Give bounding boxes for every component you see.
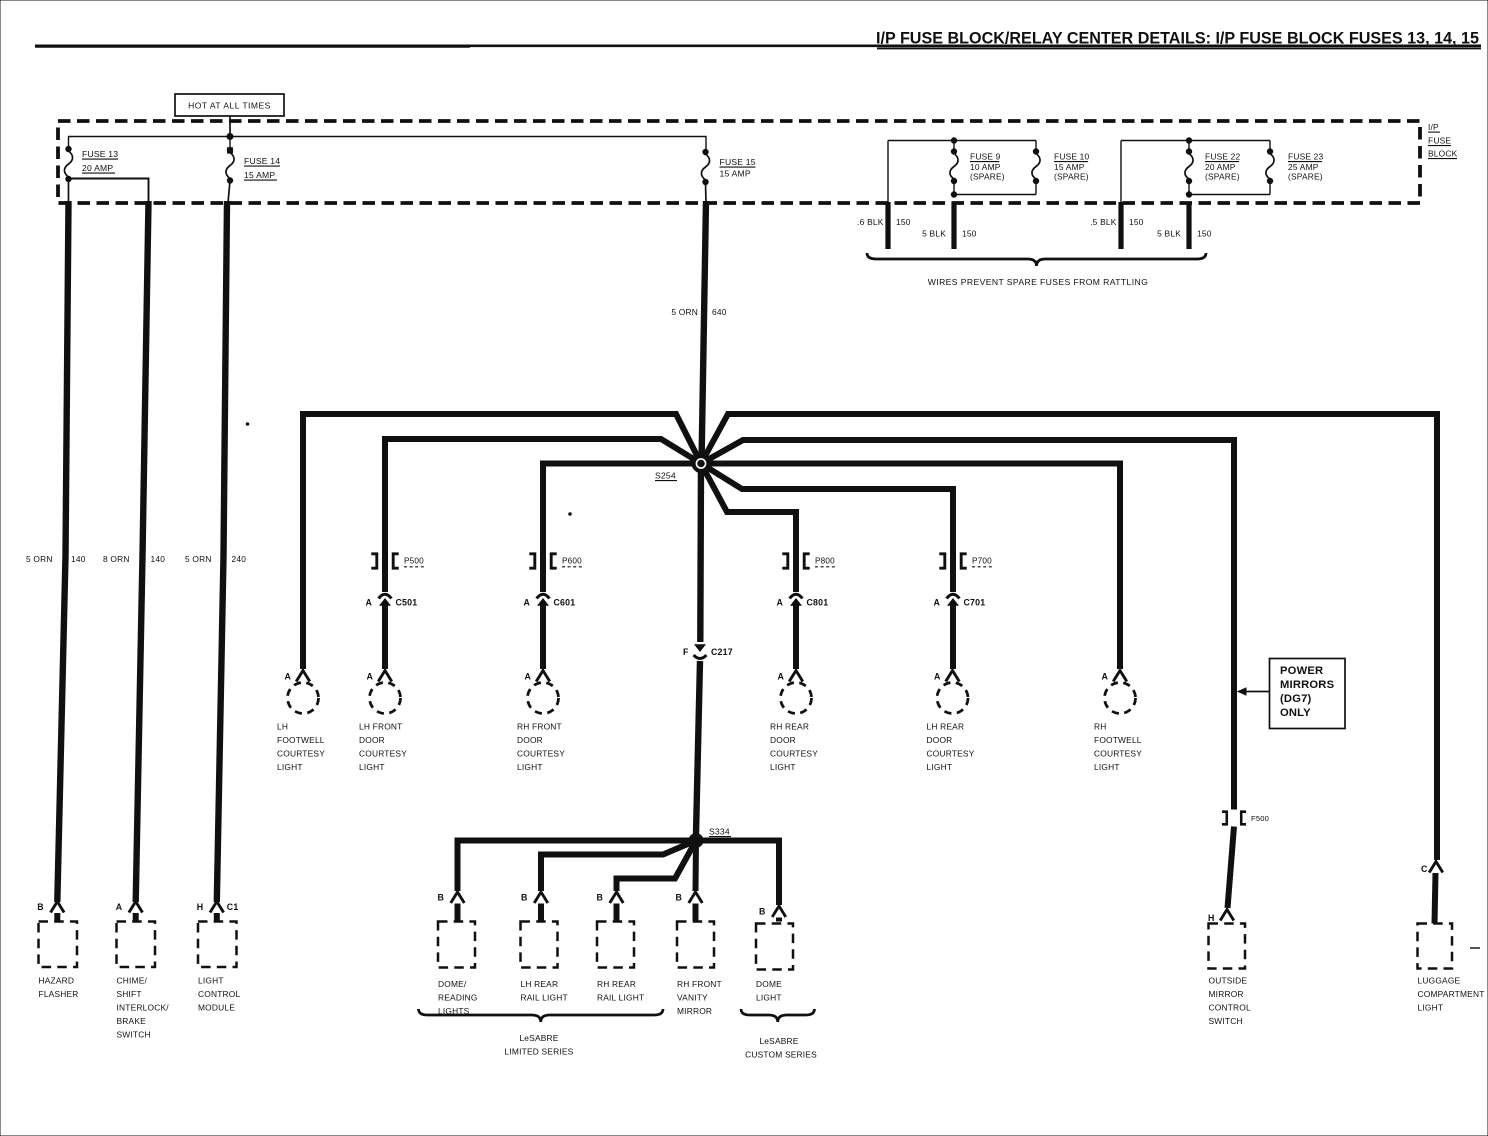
svg-text:VANITY: VANITY [677, 993, 708, 1003]
label .6 BLK 150 [857, 217, 911, 227]
svg-text:C501: C501 [396, 597, 418, 607]
svg-text:(DG7): (DG7) [1280, 693, 1312, 705]
node: bus junction at fuse 14 [227, 134, 233, 140]
label LeSABRE CUSTOM SERIES [745, 1036, 817, 1060]
svg-text:HAZARD: HAZARD [39, 976, 75, 986]
terminal A at RH FOOTWELL COURTESY LIGHT [1102, 671, 1127, 682]
svg-text:FUSE 23: FUSE 23 [1288, 152, 1324, 162]
fuse F13 [64, 146, 72, 203]
svg-text:LIGHT: LIGHT [770, 762, 796, 772]
svg-text:BLOCK: BLOCK [1428, 149, 1458, 159]
svg-text:640: 640 [712, 307, 727, 317]
svg-text:10 AMP: 10 AMP [970, 162, 1001, 172]
svg-text:20 AMP: 20 AMP [1205, 162, 1236, 172]
label .5 BLK 150 [1090, 217, 1144, 227]
box: DOME LIGHT [756, 924, 793, 970]
svg-text:RH REAR: RH REAR [597, 979, 636, 989]
svg-text:A: A [934, 672, 941, 682]
label 5 BLK 150 [922, 229, 977, 239]
svg-text:CUSTOM SERIES: CUSTOM SERIES [745, 1050, 817, 1060]
HOT AT ALL TIMES box [175, 94, 284, 116]
terminal B at DOME LIGHT [759, 906, 786, 917]
svg-text:5 BLK: 5 BLK [922, 229, 946, 239]
brace: LeSABRE LIMITED SERIES group [419, 1009, 664, 1022]
svg-text:HOT AT ALL TIMES: HOT AT ALL TIMES [188, 101, 271, 111]
svg-text:LIGHT: LIGHT [517, 762, 543, 772]
svg-text:MIRROR: MIRROR [1209, 989, 1244, 999]
label LeSABRE LIMITED SERIES [505, 1033, 574, 1057]
svg-text:COURTESY: COURTESY [359, 749, 407, 759]
svg-text:DOME: DOME [756, 979, 782, 989]
terminal H at outside mirror control switch [1208, 910, 1234, 924]
svg-text:A: A [1102, 672, 1109, 682]
lamp: RH FOOTWELL COURTESY LIGHT [1105, 683, 1136, 714]
label FUSE 9 [970, 152, 1005, 182]
terminal A at RH REAR DOOR COURTESY LIGHT [778, 671, 803, 682]
svg-text:(SPARE): (SPARE) [1288, 172, 1323, 182]
fuse F15 [701, 149, 709, 203]
brace: wires prevent spare fuses from rattling [867, 253, 1206, 266]
svg-text:LIGHT: LIGHT [198, 976, 224, 986]
svg-text:FUSE 10: FUSE 10 [1054, 152, 1090, 162]
svg-text:B: B [597, 893, 604, 903]
svg-text:(SPARE): (SPARE) [1205, 172, 1240, 182]
svg-text:FOOTWELL: FOOTWELL [277, 735, 325, 745]
wire into CHIME/SHIFT INTERLOCK/BRAKE SWITCH [133, 913, 139, 922]
terminal A at LH REAR DOOR COURTESY LIGHT [934, 671, 959, 682]
title rule [35, 46, 1481, 49]
wire below P700 [950, 550, 956, 592]
svg-text:B: B [759, 907, 766, 917]
svg-text:A: A [116, 902, 123, 912]
svg-text:DOME/: DOME/ [438, 979, 467, 989]
splice S334 [689, 834, 703, 848]
svg-text:LeSABRE: LeSABRE [759, 1036, 798, 1046]
svg-text:A: A [777, 597, 784, 607]
label S334 [709, 827, 731, 837]
svg-text:LH REAR: LH REAR [927, 722, 965, 732]
wire: S254 to P800 branch [701, 464, 796, 551]
svg-text:LIGHT: LIGHT [1094, 762, 1120, 772]
terminal B at RH FRONT VANITY MIRROR [676, 892, 703, 903]
svg-text:15 AMP: 15 AMP [244, 170, 275, 180]
wire into LIGHT CONTROL MODULE [214, 913, 220, 922]
svg-text:RH FRONT: RH FRONT [677, 979, 722, 989]
box: RH REAR RAIL LIGHT [597, 922, 634, 968]
svg-text:8 ORN: 8 ORN [103, 554, 130, 564]
callout box POWER MIRRORS (DG7) ONLY [1270, 659, 1346, 729]
title: I/P FUSE BLOCK/RELAY CENTER DETAILS [876, 29, 1479, 48]
label RH FRONT DOOR COURTESY LIGHT [517, 722, 565, 773]
svg-text:FLASHER: FLASHER [39, 989, 79, 999]
I/P FUSE BLOCK label [1428, 122, 1458, 159]
wire below C501 [382, 603, 388, 669]
wire below C801 [793, 603, 799, 669]
svg-text:CONTROL: CONTROL [198, 989, 240, 999]
connector C701 pin A [934, 594, 986, 607]
wire into RH REAR RAIL LIGHT [614, 904, 620, 922]
svg-text:INTERLOCK/: INTERLOCK/ [117, 1003, 170, 1013]
label FUSE 14 / 15 AMP [244, 156, 280, 180]
wire: branch from fuse 13 to second feed [69, 179, 149, 204]
svg-text:F500: F500 [1251, 814, 1269, 823]
wire: S254 to P500 branch [385, 439, 701, 551]
label FUSE 22 [1205, 152, 1241, 182]
svg-text:MODULE: MODULE [198, 1003, 235, 1013]
fuse F14 [226, 148, 234, 203]
svg-text:BRAKE: BRAKE [117, 1016, 147, 1026]
wire below P800 [793, 550, 799, 592]
svg-text:.6 BLK: .6 BLK [857, 217, 884, 227]
svg-text:P700: P700 [972, 557, 992, 566]
svg-text:READING: READING [438, 993, 478, 1003]
svg-text:S334: S334 [709, 827, 730, 837]
svg-text:F: F [683, 647, 689, 657]
connector C601 pin A [524, 594, 576, 607]
svg-text:P500: P500 [404, 557, 424, 566]
connector C501 pin A [366, 594, 418, 607]
box: RH FRONT VANITY MIRROR [677, 922, 714, 968]
wire: .5 BLK stub A left [885, 202, 890, 249]
terminal B at DOME/READING LIGHTS [438, 892, 465, 903]
svg-text:B: B [37, 902, 44, 912]
lamp: LH REAR DOOR COURTESY LIGHT [937, 683, 968, 714]
svg-text:COURTESY: COURTESY [277, 749, 325, 759]
lamp: LH FOOTWELL COURTESY LIGHT [288, 683, 319, 714]
wire: spare fuse frame B [1121, 138, 1270, 202]
svg-text:COMPARTMENT: COMPARTMENT [1418, 989, 1485, 999]
svg-text:C217: C217 [711, 647, 733, 657]
svg-text:RH REAR: RH REAR [770, 722, 809, 732]
svg-text:FUSE 13: FUSE 13 [82, 149, 118, 159]
terminal B at LH REAR RAIL LIGHT [521, 892, 548, 903]
svg-text:B: B [521, 893, 528, 903]
terminal C at luggage compartment light [1421, 862, 1443, 875]
svg-text:DOOR: DOOR [927, 735, 953, 745]
svg-text:240: 240 [232, 554, 247, 564]
wire into DOME/READING LIGHTS [455, 904, 461, 922]
wire: S334 to dome/reading lights [458, 841, 697, 892]
svg-text:CONTROL: CONTROL [1209, 1003, 1251, 1013]
label CHIME/SHIFT INTERLOCK/BRAKE SWITCH [117, 976, 170, 1040]
svg-text:MIRRORS: MIRRORS [1280, 679, 1335, 691]
svg-text:LIGHT: LIGHT [359, 762, 385, 772]
svg-text:(SPARE): (SPARE) [1054, 172, 1089, 182]
svg-text:RH: RH [1094, 722, 1107, 732]
svg-text:5 ORN: 5 ORN [185, 554, 212, 564]
wire: S254 to P700 branch [701, 464, 953, 551]
wire below C701 [950, 603, 956, 669]
box: HAZARD FLASHER [39, 922, 78, 968]
svg-text:150: 150 [962, 229, 977, 239]
svg-text:FOOTWELL: FOOTWELL [1094, 735, 1142, 745]
fuse FUSE 23 (spare) [1266, 149, 1274, 184]
wire into HAZARD FLASHER [54, 913, 60, 922]
wire: S254 to P600 branch [543, 464, 701, 551]
svg-text:(SPARE): (SPARE) [970, 172, 1005, 182]
svg-text:RAIL LIGHT: RAIL LIGHT [521, 993, 568, 1003]
wire: S254 to outside mirror control switch [701, 440, 1234, 810]
label RH REAR DOOR COURTESY LIGHT [770, 722, 818, 773]
svg-text:SWITCH: SWITCH [117, 1030, 151, 1040]
svg-text:DOOR: DOOR [517, 735, 543, 745]
svg-text:LH REAR: LH REAR [521, 979, 559, 989]
lamp: LH FRONT DOOR COURTESY LIGHT [370, 683, 401, 714]
svg-text:B: B [676, 893, 683, 903]
wire: 5 ORN 240 to light control module [217, 201, 227, 902]
label DOME LIGHT [756, 979, 782, 1003]
svg-text:MIRROR: MIRROR [677, 1006, 712, 1016]
label RH REAR RAIL LIGHT [597, 979, 644, 1003]
label RH FOOTWELL COURTESY LIGHT [1094, 722, 1142, 773]
svg-text:FUSE 9: FUSE 9 [970, 152, 1001, 162]
label S254 [655, 471, 677, 481]
connector C217 pin F [683, 644, 733, 658]
svg-text:5 BLK: 5 BLK [1157, 229, 1181, 239]
svg-text:OUTSIDE: OUTSIDE [1209, 976, 1248, 986]
svg-text:A: A [778, 672, 785, 682]
label DOME/READING LIGHTS [438, 979, 478, 1016]
svg-text:LH: LH [277, 722, 288, 732]
label LH REAR RAIL LIGHT [521, 979, 568, 1003]
speck artifacts [246, 423, 1480, 948]
label 8 ORN 140 [103, 554, 165, 564]
label RH FRONT VANITY MIRROR [677, 979, 722, 1016]
svg-text:COURTESY: COURTESY [927, 749, 975, 759]
svg-text:P600: P600 [562, 557, 582, 566]
label FUSE 23 [1288, 152, 1324, 182]
label WIRES PREVENT SPARE FUSES FROM RATTLING [928, 277, 1148, 287]
svg-text:H: H [197, 902, 204, 912]
svg-text:SWITCH: SWITCH [1209, 1016, 1243, 1026]
svg-text:A: A [524, 597, 531, 607]
svg-text:COURTESY: COURTESY [517, 749, 565, 759]
wire: 5 BLK stub A right [951, 202, 956, 249]
svg-text:FUSE 22: FUSE 22 [1205, 152, 1241, 162]
svg-text:A: A [934, 597, 941, 607]
wire below P600 [540, 550, 546, 592]
label FUSE 10 [1054, 152, 1090, 182]
box: OUTSIDE MIRROR CONTROL SWITCH [1209, 924, 1246, 969]
wire below C601 [540, 603, 546, 669]
svg-text:LH FRONT: LH FRONT [359, 722, 402, 732]
svg-text:LIGHT: LIGHT [927, 762, 953, 772]
svg-text:CHIME/: CHIME/ [117, 976, 148, 986]
svg-text:150: 150 [1129, 217, 1144, 227]
wire into DOME LIGHT [776, 918, 782, 922]
terminal A at LH FOOTWELL COURTESY LIGHT [285, 671, 310, 682]
svg-text:140: 140 [71, 554, 86, 564]
wire into LH REAR RAIL LIGHT [538, 904, 544, 922]
svg-text:B: B [438, 893, 445, 903]
label LH FOOTWELL COURTESY LIGHT [277, 722, 325, 773]
box: LIGHT CONTROL MODULE [198, 922, 237, 968]
wire: fuse feed bus [69, 137, 707, 151]
label LUGGAGE COMPARTMENT LIGHT [1418, 976, 1485, 1013]
label 5 ORN 140 [26, 554, 86, 564]
svg-text:A: A [367, 672, 374, 682]
svg-text:5 ORN: 5 ORN [671, 307, 698, 317]
svg-text:A: A [366, 597, 373, 607]
wire: S254 to LH footwell courtesy light [303, 414, 701, 669]
box: LH REAR RAIL LIGHT [521, 922, 558, 968]
svg-text:C801: C801 [807, 597, 829, 607]
label HAZARD FLASHER [39, 976, 79, 1000]
svg-text:LIGHT: LIGHT [756, 993, 782, 1003]
svg-text:A: A [285, 672, 292, 682]
wire: S254 to RH footwell courtesy light [701, 464, 1120, 670]
label 5 BLK 150 [1157, 229, 1212, 239]
box: DOME/READING LIGHTS [438, 922, 475, 968]
svg-text:150: 150 [896, 217, 911, 227]
wire: S334 to LH rear rail light [541, 841, 696, 892]
terminal B at HAZARD FLASHER [37, 902, 64, 913]
svg-text:RAIL LIGHT: RAIL LIGHT [597, 993, 644, 1003]
arrow from callout to mirror wire [1237, 687, 1270, 695]
svg-text:FUSE 15: FUSE 15 [720, 157, 756, 167]
svg-text:A: A [525, 672, 532, 682]
svg-text:I/P: I/P [1428, 122, 1439, 132]
svg-text:COURTESY: COURTESY [1094, 749, 1142, 759]
label FUSE 13 / 20 AMP [82, 149, 118, 173]
terminal A at LH FRONT DOOR COURTESY LIGHT [367, 671, 392, 682]
svg-text:RH FRONT: RH FRONT [517, 722, 562, 732]
svg-text:LIGHT: LIGHT [277, 762, 303, 772]
lamp: RH REAR DOOR COURTESY LIGHT [781, 683, 812, 714]
svg-text:H: H [1208, 913, 1215, 923]
svg-text:LeSABRE: LeSABRE [519, 1033, 558, 1043]
svg-text:15 AMP: 15 AMP [1054, 162, 1085, 172]
svg-text:ONLY: ONLY [1280, 707, 1311, 719]
wire: HOT feed into fuse block [229, 116, 231, 137]
wire: S334 to dome light [696, 841, 779, 906]
wire: .5 BLK stub B left [1118, 202, 1123, 249]
terminal B at RH REAR RAIL LIGHT [597, 892, 624, 903]
svg-text:DOOR: DOOR [359, 735, 385, 745]
connector P600 [529, 554, 584, 568]
label OUTSIDE MIRROR CONTROL SWITCH [1209, 976, 1251, 1027]
brace: LeSABRE CUSTOM SERIES group [741, 1009, 815, 1022]
wire: 5 ORN 640 fuse 15 to S254 [702, 201, 707, 464]
wire: S254 to luggage compartment light [701, 414, 1437, 860]
fuse FUSE 22 (spare) [1185, 141, 1193, 184]
svg-text:25 AMP: 25 AMP [1288, 162, 1319, 172]
wire into RH FRONT VANITY MIRROR [693, 904, 699, 922]
svg-text:S254: S254 [655, 471, 676, 481]
wire below P500 [382, 550, 388, 592]
terminal A at CHIME/SHIFT INTERLOCK/BRAKE SWITCH [116, 902, 143, 913]
terminal H at LIGHT CONTROL MODULE [197, 902, 239, 913]
wire: 8 ORN 140 to chime module [136, 201, 149, 902]
svg-text:POWER: POWER [1280, 665, 1323, 677]
svg-text:P800: P800 [815, 557, 835, 566]
label 5 ORN 240 [185, 554, 246, 564]
svg-text:LUGGAGE: LUGGAGE [1418, 976, 1461, 986]
lamp: RH FRONT DOOR COURTESY LIGHT [528, 683, 559, 714]
svg-text:150: 150 [1197, 229, 1212, 239]
wire: F500 to outside mirror control switch [1228, 827, 1235, 909]
connector C801 pin A [777, 594, 829, 607]
connector F500 [1222, 812, 1269, 825]
wire into luggage compartment light [1435, 873, 1436, 924]
label LIGHT CONTROL MODULE [198, 976, 240, 1013]
wire: S334 down to vanity mirror [693, 841, 700, 892]
svg-text:C: C [1421, 864, 1428, 874]
connector P700 [939, 554, 994, 568]
box: CHIME/SHIFT INTERLOCK/BRAKE SWITCH [117, 922, 156, 968]
splice S254 [692, 455, 710, 473]
svg-text:FUSE: FUSE [1428, 136, 1451, 146]
svg-text:C1: C1 [227, 902, 239, 912]
svg-text:LIMITED SERIES: LIMITED SERIES [505, 1047, 574, 1057]
svg-text:FUSE 14: FUSE 14 [244, 156, 280, 166]
svg-text:20 AMP: 20 AMP [82, 163, 113, 173]
label FUSE 15 / 15 AMP [720, 157, 756, 179]
svg-text:5 ORN: 5 ORN [26, 554, 53, 564]
svg-text:LIGHT: LIGHT [1418, 1003, 1444, 1013]
label 5 ORN 640 [671, 307, 726, 317]
svg-text:15 AMP: 15 AMP [720, 169, 751, 179]
label LH REAR DOOR COURTESY LIGHT [927, 722, 975, 773]
svg-text:WIRES PREVENT SPARE FUSES FROM: WIRES PREVENT SPARE FUSES FROM RATTLING [928, 277, 1148, 287]
fuse FUSE 9 (spare) [950, 141, 958, 184]
I/P fuse block dashed box [58, 121, 1420, 203]
svg-text:DOOR: DOOR [770, 735, 796, 745]
connector P800 [782, 554, 837, 568]
wire: 5 BLK stub B right [1186, 202, 1191, 249]
svg-text:C601: C601 [554, 597, 576, 607]
fuse FUSE 10 (spare) [1032, 149, 1040, 184]
wire: C217 down to S334 [696, 661, 700, 834]
label LH FRONT DOOR COURTESY LIGHT [359, 722, 407, 773]
terminal A at RH FRONT DOOR COURTESY LIGHT [525, 671, 550, 682]
svg-text:SHIFT: SHIFT [117, 989, 142, 999]
svg-text:C701: C701 [964, 597, 986, 607]
wire: 5 ORN 140 to hazard flasher [57, 201, 68, 902]
wire: S334 to RH rear rail light [617, 841, 697, 892]
svg-text:.5 BLK: .5 BLK [1090, 217, 1117, 227]
connector P500 [371, 554, 426, 568]
box: LUGGAGE COMPARTMENT LIGHT [1418, 924, 1453, 969]
wire: spare fuse frame A [888, 138, 1036, 202]
svg-text:140: 140 [151, 554, 166, 564]
svg-text:COURTESY: COURTESY [770, 749, 818, 759]
wire: S254 down to C217 [697, 464, 704, 643]
